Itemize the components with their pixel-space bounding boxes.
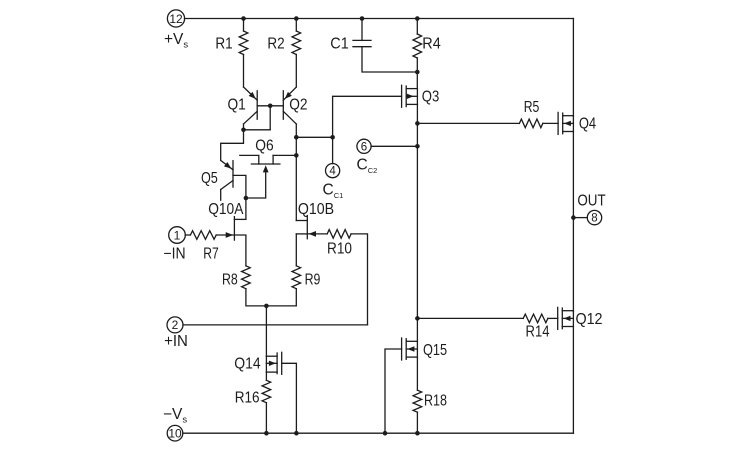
node R14 junction [415, 316, 420, 321]
resistor R1 [215, 31, 247, 55]
node C1 top [360, 16, 365, 21]
transistor Q4 [558, 112, 596, 134]
wire base tie to Q1 collector node [269, 106, 271, 130]
wire R14 to Q12 gate [548, 317, 558, 319]
node R4/C1 junction [415, 70, 420, 75]
resistor R8 [222, 266, 250, 289]
node R1 top [241, 16, 246, 21]
svg-text:Q1: Q1 [227, 97, 245, 114]
svg-text:Q14: Q14 [234, 355, 261, 372]
wire Q15 gate to -Vs [385, 349, 402, 433]
resistor R16 [235, 380, 271, 406]
wire pin 1 to R7 [185, 234, 190, 236]
svg-text:Q12: Q12 [575, 311, 602, 328]
pin 6 [357, 139, 371, 153]
svg-text:+Vs: +Vs [164, 31, 188, 51]
node Q3 source / R5 [415, 121, 420, 126]
pin 10 (-Vs) [167, 425, 183, 441]
wire -Vs bottom rail [183, 432, 573, 434]
pin 1 (-IN) [169, 227, 186, 244]
wire Q3 source to R5 node [416, 104, 418, 123]
wire Q15 source to R18 [416, 357, 418, 390]
svg-text:12: 12 [169, 12, 183, 26]
wire Q5 base lead [233, 175, 246, 219]
svg-text:R10: R10 [327, 241, 352, 258]
node R18/-Vs [415, 431, 420, 436]
node R4 top [415, 16, 420, 21]
wire R14 left lead [417, 317, 523, 319]
svg-text:R14: R14 [526, 323, 550, 340]
svg-text:OUT: OUT [577, 192, 606, 209]
svg-text:Q5: Q5 [201, 170, 218, 187]
wire R16 to -Vs rail [265, 403, 267, 434]
svg-text:Q3: Q3 [422, 88, 440, 105]
svg-text:R4: R4 [422, 36, 441, 53]
wire R1 to Q1 emitter [243, 55, 245, 88]
wire R8 bottom [246, 289, 296, 306]
node pin 6 junction [415, 144, 420, 149]
resistor R7 [190, 231, 218, 263]
node base tie [268, 104, 273, 109]
node R8/R9 tail [264, 304, 269, 309]
svg-text:−IN: −IN [163, 245, 185, 262]
wire right rail upper (to Q4 drain) [572, 19, 574, 116]
svg-text:CC1: CC1 [323, 182, 344, 201]
node Q5 base / Q6 gate [244, 196, 249, 201]
svg-text:6: 6 [361, 141, 367, 153]
capacitor C1 [330, 36, 371, 53]
node R2 top [294, 16, 299, 21]
wire R7 to Q10A emitter [216, 232, 233, 238]
svg-text:R9: R9 [305, 271, 321, 288]
wire Q2 collector to pin 4 node [296, 136, 332, 138]
wire Q14 source to R16 [265, 372, 267, 380]
wire R2 to Q2 emitter [295, 55, 297, 88]
svg-text:8: 8 [591, 213, 597, 225]
wire to Q3 gate [333, 96, 402, 137]
wire Q2 collector rail [295, 137, 297, 220]
transistor Q3 [402, 85, 440, 107]
svg-text:R7: R7 [203, 245, 219, 262]
wire Q1-Q2 base tie [257, 105, 283, 107]
transistor Q15 [402, 338, 447, 360]
transistor Q14 [234, 352, 281, 374]
transistor Q6 [240, 138, 296, 173]
wire C1 bottom to R4 bottom [362, 47, 417, 72]
svg-text:Q6: Q6 [255, 138, 273, 155]
wire R4 top lead [416, 19, 418, 35]
wire to R5 [417, 122, 519, 124]
wire R10 to +IN wire [351, 234, 367, 325]
resistor R14 [523, 314, 550, 340]
node Q1 collector [241, 128, 246, 133]
svg-text:R16: R16 [235, 390, 260, 407]
pin 4 [326, 164, 340, 178]
wire to Q6 substrate arrow [246, 172, 266, 199]
transistor Q10A [208, 201, 246, 266]
wire +Vs top rail [185, 18, 574, 20]
wire Q10B emitter to R10 [307, 231, 327, 237]
wire C1 top lead [361, 19, 363, 41]
wire R4 to Q3 drain [416, 58, 418, 89]
wire to pin 4 [332, 137, 334, 163]
wire R1 top lead [243, 19, 245, 32]
wire Q1 collector node [244, 129, 271, 131]
wire Q14 gate to -Vs [282, 363, 297, 433]
transistor Q12 [558, 307, 603, 329]
wire R2 top lead [295, 19, 297, 32]
svg-text:4: 4 [329, 166, 336, 178]
svg-text:Q15: Q15 [423, 342, 447, 359]
svg-text:Q4: Q4 [579, 115, 597, 132]
wire R9 top to Q10B [295, 234, 297, 266]
node pin4/Q3 gate [330, 135, 335, 140]
wire rail Q3-source down to Q15 drain [416, 123, 418, 341]
svg-text:Q10B: Q10B [298, 201, 334, 218]
pin 12 (+Vs) [167, 10, 184, 27]
wire R5 to Q4 gate [543, 122, 558, 124]
node Q2 collector [294, 135, 299, 140]
transistor Q1 [227, 87, 257, 130]
svg-text:R1: R1 [215, 36, 232, 53]
pin 2 (+IN) [167, 317, 183, 333]
svg-text:R8: R8 [222, 271, 238, 288]
node Q14 gate/-Vs [294, 431, 299, 436]
resistor R2 [267, 31, 300, 55]
node Q15 gate/-Vs [383, 431, 388, 436]
svg-text:2: 2 [172, 318, 179, 332]
wire right rail lower (Q12 source to -Vs rail) [572, 327, 574, 433]
wire right rail mid (Q4 source to Q12 drain) [572, 132, 574, 312]
svg-text:10: 10 [168, 427, 182, 441]
wire to pin 8 [573, 217, 587, 219]
node Q6 source [294, 153, 299, 158]
wire R18 to -Vs rail [416, 412, 418, 433]
wire Q1 collector to Q5 emitter [221, 130, 244, 161]
pin 8 (OUT) [587, 210, 601, 224]
svg-text:Q10A: Q10A [208, 201, 244, 218]
transistor Q10B [296, 201, 334, 239]
svg-text:−Vs: −Vs [163, 406, 187, 426]
resistor R4 [413, 34, 441, 58]
transistor Q2 [283, 87, 307, 137]
svg-text:R2: R2 [267, 36, 284, 53]
svg-text:R18: R18 [424, 393, 447, 410]
svg-text:CC2: CC2 [357, 157, 378, 176]
wire tail to Q14 drain [265, 306, 267, 356]
node OUT [571, 215, 576, 220]
wire pin 2 (+IN) [183, 324, 368, 326]
resistor R5 [519, 99, 542, 128]
svg-text:R5: R5 [524, 99, 540, 116]
node R16/-Vs [264, 431, 269, 436]
transistor Q5 [201, 160, 233, 200]
svg-text:1: 1 [174, 228, 181, 242]
svg-text:Q2: Q2 [289, 97, 307, 114]
wire pin 6 to rail [371, 145, 417, 147]
resistor R9 [292, 266, 320, 289]
resistor R10 [327, 230, 352, 258]
resistor R18 [413, 390, 447, 412]
svg-text:+IN: +IN [164, 333, 188, 350]
svg-text:C1: C1 [330, 36, 349, 53]
